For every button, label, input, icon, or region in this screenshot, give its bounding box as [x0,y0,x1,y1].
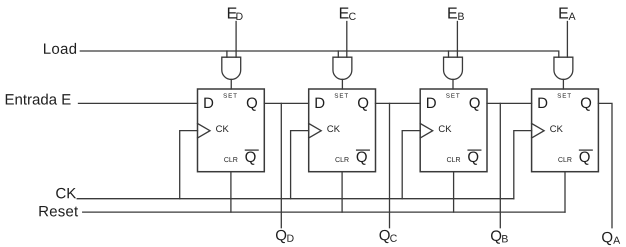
wire gate G2 output to SET pin [341,79,343,89]
wire QD tap [280,103,282,227]
wire CK drop to U1 [180,131,198,199]
label CK [56,188,76,199]
wire Reset stub to CLR of U2 [341,172,343,212]
pin label SET of U3 [446,93,459,97]
wire Q of U3 to D of U4 [487,102,532,104]
pin label CK of U2 [327,125,340,132]
pin label CLR of U4 [558,157,571,162]
wire QC tap [389,103,391,227]
overbar of Qbar U2 [357,149,370,151]
pin label D of U1 [204,98,213,108]
label QC output [380,230,397,243]
wire Entrada E to D input of U1 [79,102,198,104]
pin label SET of U4 [558,93,571,97]
label EC input [340,7,356,20]
pin label D of U2 [316,98,325,108]
wire CK bus [77,198,514,200]
D flip-flop U3 box [420,89,487,172]
label Entrada E [6,94,71,105]
pin label D of U3 [427,98,436,108]
label Load [44,43,76,54]
D flip-flop U2 box [309,89,376,172]
AND gate G4 (load enable) [554,57,573,79]
wire CK drop to U3 [402,131,420,199]
clock edge triangle of U1 [198,124,211,139]
wire CK drop to U4 [514,131,532,199]
label QB output [491,230,508,243]
pin label Q of U2 [358,98,368,111]
clock edge triangle of U4 [532,124,545,139]
pin label Q of U1 [247,98,257,111]
pin label CLR of U1 [224,157,237,162]
wire gate G1 output to SET pin [230,79,232,89]
D flip-flop U4 box [532,89,599,172]
wire Q of U2 to D of U3 [376,102,421,104]
wire Reset stub to CLR of U1 [230,172,232,212]
pin label SET of U2 [335,93,348,97]
pin label CLR of U3 [447,157,460,162]
pin label CK of U4 [550,125,563,132]
wire Load bus [80,51,559,57]
AND gate G2 (load enable) [333,57,352,79]
wire Load stub to gate G2 [337,51,339,57]
wire Load stub to gate G3 [448,51,450,57]
wire gate G4 output to SET pin [562,79,564,89]
pin label Qbar of U3 [468,152,478,165]
label EB input [448,7,464,19]
pin label SET of U1 [223,93,236,97]
pin label Q of U4 [581,98,591,111]
pin label CK of U3 [439,125,452,132]
overbar of Qbar U1 [245,149,258,151]
pin label Q of U3 [470,98,480,111]
overbar of Qbar U4 [580,149,593,151]
wire QB tap [499,103,501,227]
wire Reset stub to CLR of U4 [564,172,566,212]
wire EC vertical [346,22,348,58]
label ED input [228,7,243,19]
clock edge triangle of U3 [420,124,433,139]
pin label CLR of U2 [335,157,348,162]
wire ED vertical [235,22,237,58]
pin label Qbar of U1 [245,152,255,165]
wire gate G3 output to SET pin [452,79,454,89]
clock edge triangle of U2 [309,124,322,139]
wire Q of U1 to D of U2 [264,102,308,104]
overbar of Qbar U3 [468,149,481,151]
pin label Qbar of U2 [357,152,367,165]
AND gate G3 (load enable) [444,57,463,79]
wire Reset stub to CLR of U3 [453,172,455,212]
wire EB vertical [456,22,458,58]
wire Load stub to gate G1 [226,51,228,57]
label QD output [276,230,294,243]
wire EA vertical [566,22,568,58]
wire Reset bus [83,211,565,213]
AND gate G1 (load enable) [222,57,241,79]
label EA input [559,7,575,19]
pin label CK of U1 [216,125,229,132]
wire CK drop to U2 [291,131,309,199]
D flip-flop U1 box [198,89,265,172]
pin label D of U4 [538,98,547,108]
label QA output [602,232,620,245]
wire Q of U4 output [598,103,612,227]
label Reset [39,206,78,216]
pin label Qbar of U4 [580,152,590,165]
